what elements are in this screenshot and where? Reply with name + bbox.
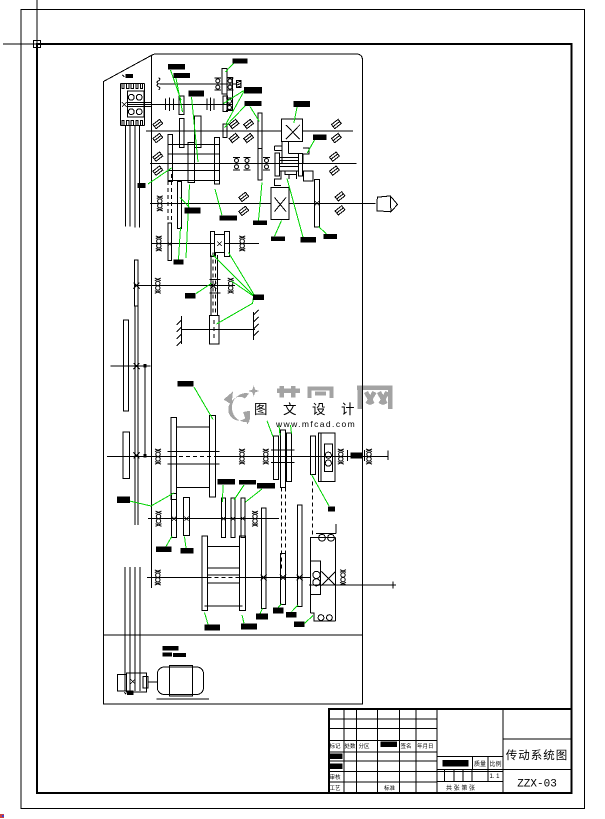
crossing mark X5	[134, 363, 140, 369]
shaft I spring symbol	[157, 78, 160, 90]
motor spline lines	[125, 567, 140, 691]
label b38	[127, 691, 134, 695]
svg-text:标记: 标记	[330, 742, 342, 750]
line w3	[40, 43, 86, 45]
leader g15	[319, 227, 327, 234]
X clutch on shaft C	[321, 572, 335, 586]
svg-text:分区: 分区	[359, 742, 371, 750]
circle detail c6	[319, 534, 326, 541]
label b35	[162, 646, 178, 651]
gear a4 vertical	[310, 436, 315, 475]
crossing mark X3	[217, 242, 222, 247]
trim mark horizontal	[3, 43, 86, 45]
leader g40	[130, 493, 174, 506]
gear tall shaft IV mid	[258, 149, 262, 180]
svg-text:处数: 处数	[345, 742, 357, 750]
watermark shape	[2, 815, 4, 817]
label blob	[144, 364, 147, 367]
black bearing blob on shaft A	[348, 450, 365, 461]
leader g30	[166, 536, 172, 547]
watermark shape	[224, 392, 234, 405]
line w5	[122, 120, 143, 125]
crossing mark X6	[134, 283, 140, 289]
shaft I thread block	[237, 81, 241, 88]
shaft V bearing right	[335, 192, 345, 215]
clutch gear upper rect	[222, 69, 227, 95]
shaft III line	[146, 130, 353, 132]
label b22	[217, 479, 235, 485]
gear rect g6	[303, 171, 313, 181]
gear b4	[241, 498, 245, 538]
center line w11	[213, 320, 215, 340]
electromagnetic clutch M1 body	[120, 83, 144, 125]
svg-text:www.mfcad.com: www.mfcad.com	[275, 419, 356, 429]
PANEL outline	[104, 54, 363, 704]
gear c3	[298, 505, 303, 607]
bracket circles upper	[316, 524, 336, 533]
leader g8	[307, 140, 314, 153]
fork bracket above clutch V	[274, 171, 296, 186]
shaft V bearing mid diag	[239, 192, 249, 215]
leader g38	[305, 616, 313, 624]
gear rect g7	[224, 232, 229, 257]
motor clutch mid box	[127, 673, 147, 692]
label b8	[294, 101, 310, 107]
circle detail c9	[313, 579, 320, 586]
leader g31	[185, 537, 187, 549]
bearing pair above shaft I/II column	[226, 98, 233, 110]
label b24	[257, 483, 275, 489]
header redacted blob	[381, 742, 398, 748]
crossing mark X4	[210, 283, 216, 289]
label b34	[294, 622, 305, 628]
gear z2 below	[179, 119, 184, 148]
crossing mark X7	[172, 517, 176, 521]
leader g28	[234, 485, 244, 500]
gear z1 on shaft II	[179, 96, 184, 115]
shaft IV bearing left	[153, 152, 163, 175]
shaft III bearing left	[153, 119, 163, 142]
feed shaft C line	[147, 577, 310, 579]
title block outer	[329, 709, 572, 793]
leader g14	[287, 179, 303, 238]
clutch gear column on shaft II	[223, 96, 228, 112]
shaft B bearing left	[156, 511, 162, 526]
leader g29	[246, 489, 263, 502]
bracket circles lower	[310, 613, 335, 621]
leader g32	[312, 475, 330, 506]
circle detail c3	[128, 109, 134, 115]
shaft V bearing left	[157, 196, 163, 211]
worm block	[210, 316, 219, 344]
leader g25	[279, 426, 280, 436]
gear rect g2	[188, 143, 195, 183]
label b27	[328, 506, 335, 511]
shaft III gear tall	[258, 113, 262, 149]
svg-text:工艺: 工艺	[330, 785, 342, 792]
left feed vertical lines	[135, 306, 138, 525]
feed shaft A line	[107, 456, 388, 458]
motor underline	[156, 698, 209, 700]
TITLEBLOCK	[329, 709, 572, 793]
middle small cells	[444, 757, 488, 782]
shaft A bearing left	[155, 449, 161, 464]
gray glyph middle	[308, 389, 334, 399]
shaft A bearing mid1	[239, 449, 245, 464]
shaft VII bearing left	[155, 278, 161, 293]
shaft I bearing left	[214, 78, 221, 90]
label b16	[323, 234, 337, 239]
motor clutch left box	[118, 675, 127, 692]
leader g12	[259, 183, 263, 221]
label b5	[188, 91, 204, 97]
gear rect g1	[195, 116, 201, 147]
crossing mark X12	[261, 575, 267, 581]
label b6	[244, 87, 262, 94]
upper drum right plate	[209, 416, 215, 497]
shaft VI bearing right	[239, 236, 245, 251]
leader g5c	[225, 106, 246, 128]
right cluster on shaft IV	[280, 158, 299, 171]
clutch M1 inner box	[127, 91, 144, 117]
label b13	[253, 221, 267, 226]
shaft C bearing right	[340, 570, 346, 585]
svg-text:传动系统图: 传动系统图	[506, 748, 569, 762]
gear on shaft VI	[168, 223, 172, 261]
leader g7	[294, 107, 297, 123]
svg-text:标准: 标准	[384, 784, 396, 792]
gear rect g5	[298, 153, 302, 176]
label b31	[256, 614, 268, 620]
title block left table verticals	[344, 709, 437, 793]
label b4	[232, 59, 247, 64]
label b18	[185, 293, 196, 299]
svg-text:图文设计: 图文设计	[254, 402, 370, 417]
gear rect g9	[324, 444, 332, 472]
gear b0	[172, 494, 177, 538]
right wall hatch	[254, 310, 259, 340]
vertical worm shaft dashed	[211, 255, 218, 316]
shaft II line	[152, 103, 234, 105]
leader g10	[180, 198, 190, 208]
svg-text:质量: 质量	[474, 760, 486, 768]
clutch M1 coil circles	[128, 94, 134, 100]
leader g4	[226, 63, 234, 72]
gear rect g4	[275, 153, 279, 176]
leader g6	[250, 107, 259, 122]
sparkle star	[248, 386, 259, 397]
gear cluster block shafts III-IV	[168, 144, 219, 180]
line w7	[286, 125, 300, 139]
gear a3	[287, 433, 292, 482]
label b1	[125, 74, 132, 78]
label b9	[313, 135, 326, 140]
line w6	[237, 81, 241, 87]
crossing mark X2	[168, 242, 172, 246]
crossing mark X9	[221, 517, 225, 521]
label b20	[178, 381, 194, 387]
label b15	[301, 237, 316, 242]
gear b3	[231, 498, 235, 538]
middle section	[437, 709, 503, 793]
shaft IV line	[150, 163, 356, 165]
middle redacted blob	[443, 760, 469, 767]
leader g18b	[229, 253, 255, 296]
worm cross shaft	[182, 328, 256, 330]
leader g26	[291, 425, 292, 434]
panel divider	[104, 634, 363, 636]
title block left table horizontals	[329, 719, 503, 782]
leader g17b	[186, 185, 190, 259]
gear c1	[262, 508, 267, 609]
gear cross lines	[271, 450, 295, 463]
shaft A bearing mid2	[263, 449, 269, 464]
gear a1	[274, 436, 279, 480]
label b37	[173, 653, 186, 657]
watermark shape	[243, 410, 254, 425]
svg-text:比例: 比例	[490, 760, 502, 768]
shaft IV bearing right	[329, 152, 339, 175]
gear on shaft IV left	[168, 134, 173, 181]
left wall hatch	[177, 316, 182, 346]
shaft II coupling 1	[166, 98, 174, 111]
corner color pixels	[0, 814, 4, 818]
upper drum top/bottom edges	[177, 427, 210, 488]
gear rect g8	[215, 235, 225, 253]
crossing mark X15	[130, 679, 135, 684]
crossing mark X8	[184, 517, 188, 521]
label b10	[137, 183, 145, 188]
leader g18	[213, 255, 254, 296]
leader g19	[232, 281, 255, 297]
shaft II coupling 2	[207, 98, 214, 111]
clutch box on shaft VI	[211, 232, 215, 257]
label b7	[244, 101, 261, 106]
corner square	[34, 41, 41, 48]
label b3	[174, 73, 191, 78]
svg-text:审核: 审核	[330, 773, 342, 781]
line w12	[387, 451, 389, 461]
shaft III bearing mid2	[244, 119, 254, 142]
label b19	[253, 294, 264, 300]
center line w10	[213, 253, 216, 316]
leader g24	[267, 421, 273, 437]
shaft B bearing right	[252, 511, 258, 526]
label b2	[168, 64, 185, 69]
svg-text:1. 1: 1. 1	[490, 774, 501, 780]
circle detail c11	[327, 615, 333, 621]
label b17	[174, 259, 184, 264]
label b36	[162, 653, 172, 657]
electromagnetic clutch M1 top comb	[120, 82, 144, 84]
clutch box on shaft V	[271, 188, 289, 220]
label b21	[117, 497, 130, 503]
shaft III bearing mid1	[229, 119, 239, 142]
shaft VII line	[134, 285, 235, 287]
leader g23	[194, 387, 213, 420]
leader g27	[222, 485, 225, 502]
circle detail c7	[328, 534, 335, 541]
svg-text:ZZX-03: ZZX-03	[517, 779, 557, 791]
white box	[250, 398, 357, 419]
leader g1	[171, 70, 182, 100]
feed stub x2	[134, 452, 140, 458]
leader g36	[278, 604, 282, 607]
line w13	[320, 433, 322, 482]
left feed vertical rect pair	[134, 260, 138, 306]
feed shaft B line	[148, 518, 279, 520]
motor body	[157, 667, 203, 695]
motor clutch right box	[143, 676, 148, 688]
output pentagon	[377, 196, 398, 212]
shaft A bearing right	[366, 449, 372, 464]
gear b1	[184, 498, 190, 536]
label b29	[204, 624, 220, 630]
gear b2	[221, 498, 225, 538]
gear on shaft V left	[178, 182, 182, 229]
bearing box shaft C	[310, 561, 320, 594]
leader g17	[179, 227, 181, 259]
leader g20	[217, 297, 254, 325]
feed stub shaft 1	[111, 365, 151, 367]
circle detail c8	[313, 571, 320, 578]
crossing mark X13	[280, 575, 286, 581]
gear c2	[281, 554, 286, 605]
leader g33	[205, 613, 209, 625]
leader g5b	[226, 92, 244, 125]
leader g22	[196, 283, 211, 293]
label b25	[156, 547, 172, 553]
tall gear on cluster	[214, 138, 219, 184]
label b33	[286, 612, 297, 618]
label b12	[219, 215, 237, 220]
label b32	[273, 607, 284, 613]
leader g2	[176, 78, 183, 112]
label blob	[144, 454, 147, 457]
label b30	[241, 623, 257, 629]
clutch gear lower rect	[227, 78, 233, 111]
bearing box on shaft A	[318, 433, 335, 482]
bearing 8 after box	[338, 449, 344, 464]
crossing mark X1	[315, 201, 320, 206]
shaft C dashed center	[208, 577, 240, 579]
upper drum left plate	[171, 418, 177, 500]
gear on shaft V right	[315, 180, 320, 228]
circle detail c5	[325, 460, 331, 466]
circle detail c4	[325, 452, 331, 458]
gear a2	[281, 430, 286, 488]
spline shaft below clutch	[126, 126, 140, 228]
belt lines	[168, 451, 220, 464]
fork bracket below clutch	[275, 142, 309, 163]
label blob	[350, 452, 362, 458]
leader g5a	[224, 91, 244, 104]
clutch M1 x mark	[122, 102, 127, 107]
shaft I line	[160, 83, 237, 85]
svg-text:年月日: 年月日	[417, 742, 434, 750]
feed link line	[144, 366, 146, 456]
shaft III bearing right	[331, 119, 341, 142]
leader g35	[260, 609, 263, 614]
shaft C bearing left	[155, 570, 161, 585]
lower drum left plate	[202, 536, 208, 611]
line w9	[275, 198, 287, 212]
tall housing box shaft C	[310, 537, 335, 620]
dashed shaft V left	[168, 174, 171, 258]
shaft V line	[150, 202, 376, 204]
title block header row text	[330, 742, 434, 792]
vertical dashed pair mid	[281, 488, 285, 571]
gray glyph wang	[357, 388, 393, 410]
leader g34	[242, 615, 244, 623]
left feed gear rect 2	[123, 432, 129, 479]
leader g37	[292, 605, 299, 612]
row blob 2	[330, 764, 343, 770]
crossing mark X10	[231, 517, 235, 521]
svg-text:共 张 第 张: 共 张 第 张	[446, 784, 475, 792]
leader g11	[215, 189, 222, 215]
gray glyph tuwen partial left	[277, 386, 300, 398]
label b23	[239, 480, 256, 485]
worm crossing ticks	[210, 280, 221, 294]
shaft I bearing right	[227, 78, 234, 90]
right section lines	[503, 739, 572, 770]
motor inner rect	[170, 666, 193, 696]
row blob 1	[330, 754, 343, 760]
label b26	[181, 548, 194, 553]
motor link line	[148, 681, 157, 683]
shaft III reversing clutch box	[282, 119, 303, 141]
left feed gear rect 1	[124, 320, 129, 411]
label b11	[184, 207, 200, 213]
shaft IV bearing o2	[244, 157, 251, 169]
line w4	[122, 83, 143, 88]
shaft VI bearing left	[156, 236, 162, 251]
label b14	[271, 236, 285, 241]
leader g3	[192, 97, 199, 162]
lower drum edges	[205, 547, 243, 606]
shaft IV bearing o3	[263, 157, 270, 169]
trim mark vertical	[36, 0, 38, 93]
shaft VII bearing right	[228, 278, 234, 293]
leader g13	[275, 221, 282, 237]
lower drum right plate	[240, 536, 246, 611]
line w14	[309, 582, 396, 589]
clutch M1 bottom comb	[120, 125, 144, 127]
shaft IV bearing o1	[233, 157, 240, 169]
crossing mark X11	[241, 517, 245, 521]
svg-text:签名: 签名	[401, 742, 412, 750]
swirl logo	[228, 393, 250, 422]
housing vertical line	[151, 56, 153, 588]
shaft VI line	[152, 243, 259, 245]
circle detail c10	[318, 615, 324, 621]
shaft III small gear	[223, 124, 227, 138]
leader g9	[148, 168, 172, 184]
crossing mark X14	[297, 575, 303, 581]
dashed vertical right	[311, 482, 313, 538]
shaft A dashed center in drum	[172, 456, 215, 458]
clutch M1 output double lines	[127, 103, 165, 107]
